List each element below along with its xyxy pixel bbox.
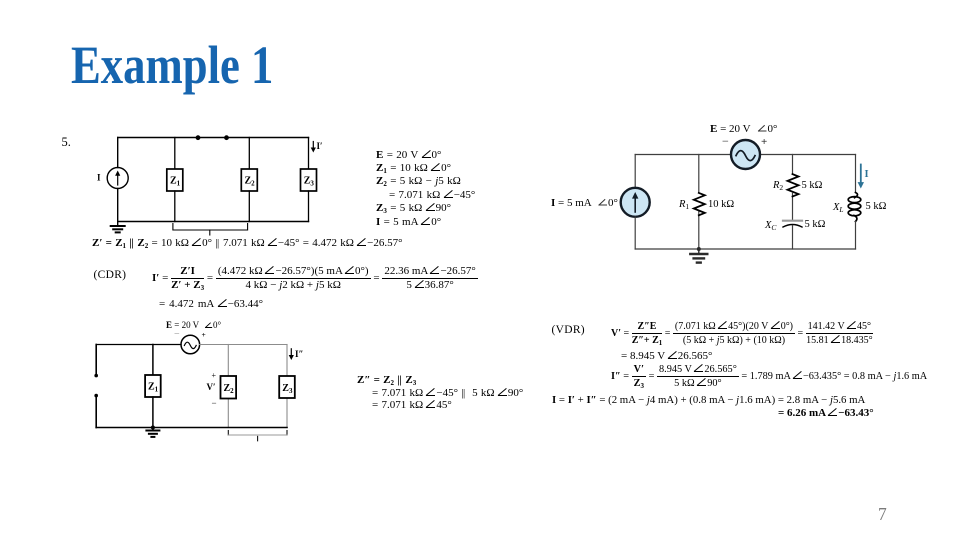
current arrow I (blue) (858, 165, 869, 189)
VDR label (552, 324, 585, 336)
ground (circuit 3) (690, 249, 707, 263)
svg-text:I = 5 mA: I = 5 mA (551, 197, 592, 209)
open terminals of removed source (94, 345, 98, 428)
svg-text:+: + (202, 330, 206, 339)
label I = 5 mA angle 0 (551, 197, 618, 209)
wire: top bus (118, 137, 309, 139)
label XL 5k (832, 201, 887, 214)
svg-text:−: − (212, 398, 217, 408)
junction dot at Z1 bottom (151, 426, 155, 430)
CDR label (94, 269, 127, 281)
wire: bottom bus circuit 3 (635, 248, 855, 250)
svg-text:+: + (761, 136, 767, 148)
svg-text:E = 20 V: E = 20 V (710, 123, 751, 135)
resistor R1 (698, 155, 700, 250)
inductor XL (848, 155, 861, 250)
wire: top bus circuit 3 (635, 154, 855, 156)
svg-text:I: I (97, 173, 101, 183)
resistor R2 (792, 155, 794, 221)
svg-text:R1: R1 (678, 199, 689, 211)
circuit 2: E source with Z1 Z2 Z3, current source removed (88, 316, 328, 446)
brace Z1 parallel Z2 (173, 224, 248, 236)
VDR row 3 (611, 364, 927, 390)
VDR equation row 1 (611, 320, 873, 348)
junction dot R1 bottom (697, 247, 701, 251)
CDR equation row (152, 264, 478, 292)
circuit 3: colored circuit with R1 R2 XC XL (520, 115, 940, 275)
node dot A on top bus (196, 135, 201, 140)
impedance Z1 (circuit 2) (145, 345, 161, 428)
impedance Z3 (301, 138, 317, 222)
label E = 20 V angle 0 (710, 123, 777, 148)
impedance Z3 (circuit 2) (286, 345, 288, 428)
svg-text:0°: 0° (768, 123, 778, 135)
VDR row 4 (552, 394, 865, 406)
ground (circuit 2) (146, 428, 159, 437)
current source I (circuit 3) (621, 155, 650, 250)
Z'' equations (357, 374, 523, 412)
svg-text:R2: R2 (772, 180, 783, 192)
slide title (71, 33, 273, 96)
node dot B on top bus (224, 135, 229, 140)
label R2 5k (772, 180, 823, 192)
svg-text:5 kΩ: 5 kΩ (866, 201, 887, 212)
ground (circuit 1) (111, 222, 125, 233)
label XC 5k (764, 219, 826, 232)
wire: top left segment (black) (96, 344, 181, 346)
svg-text:0°: 0° (213, 320, 222, 330)
svg-text:XC: XC (764, 220, 777, 232)
impedance Z1 (167, 138, 183, 222)
voltage source E (AC) (181, 335, 200, 354)
svg-text:5 kΩ: 5 kΩ (805, 219, 826, 230)
impedance Z2 (241, 138, 257, 222)
current arrow I' (311, 141, 323, 153)
current arrow I'' (289, 349, 304, 360)
page number (878, 504, 887, 525)
svg-text:V′: V′ (207, 382, 216, 392)
VDR row 2 (621, 350, 712, 362)
svg-text:I″: I″ (295, 349, 304, 359)
svg-text:+: + (212, 371, 217, 380)
capacitor XC (783, 221, 802, 249)
item number 5 (62, 135, 71, 150)
voltage source E (circuit 3) (731, 140, 760, 169)
svg-text:5 kΩ: 5 kΩ (802, 180, 823, 191)
svg-text:10 kΩ: 10 kΩ (708, 199, 734, 210)
brace Z2 parallel Z3 (228, 431, 287, 441)
circuit 1: parallel current source with Z1 Z2 Z3 (88, 125, 338, 240)
parameter list (376, 149, 475, 229)
impedance Z2 (circuit 2) (227, 345, 229, 428)
equation Z' (92, 237, 402, 249)
CDR result row (159, 298, 263, 310)
VDR row 5 (778, 407, 874, 419)
label E = 20 V angle 0 (166, 320, 222, 340)
wire: top bus circuit 2 (200, 344, 287, 346)
wire: bottom bus (118, 221, 309, 223)
svg-text:XL: XL (832, 202, 844, 214)
svg-text:I: I (865, 169, 869, 180)
svg-text:I′: I′ (317, 141, 323, 151)
svg-text:E = 20 V: E = 20 V (166, 320, 200, 330)
wire: bottom bus circuit 2 (96, 427, 287, 429)
current source I (107, 138, 128, 222)
svg-text:0°: 0° (608, 197, 618, 209)
svg-text:−: − (722, 134, 729, 148)
label R1 10k (678, 199, 734, 211)
svg-text:−: − (174, 329, 180, 340)
